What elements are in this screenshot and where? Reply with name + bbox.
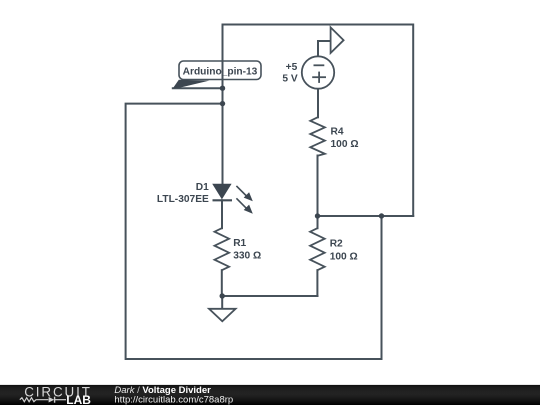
- footer bar: [0, 385, 540, 405]
- junction dot at ground: [220, 293, 225, 298]
- wire LED to R1: [221, 200, 223, 228]
- svg-text:330 Ω: 330 Ω: [233, 250, 261, 261]
- svg-text:Arduino_pin-13: Arduino_pin-13: [183, 67, 258, 78]
- svg-text:D1: D1: [196, 182, 209, 193]
- wire flag lead: [173, 87, 223, 89]
- svg-text:R1: R1: [233, 238, 246, 249]
- logo schematic line: resistor zigzag: [20, 398, 49, 402]
- svg-text:R4: R4: [331, 127, 344, 138]
- wire V1 top lead: [318, 41, 331, 56]
- resistor R4 zigzag: [310, 117, 325, 155]
- wire main vertical from top to LED: [222, 25, 224, 185]
- node flag Arduino_pin-13 box: [179, 61, 261, 80]
- junction dot R2 top: [315, 213, 320, 218]
- diode D1 LED triangle: [213, 184, 231, 198]
- wire horizontal between R4/R2 to right box: [318, 215, 414, 217]
- svg-text:http://circuitlab.com/c78a8rp: http://circuitlab.com/c78a8rp: [114, 395, 233, 405]
- svg-text:+5: +5: [286, 62, 298, 73]
- wire over label box: [222, 60, 224, 81]
- resistor R1 zigzag: [215, 228, 230, 270]
- wire bottom horizontal R1 to R2: [222, 295, 318, 297]
- wire left box: left side, bottom, right riser: [126, 104, 382, 359]
- svg-text:LTL-307EE: LTL-307EE: [157, 194, 209, 205]
- svg-text:5 V: 5 V: [282, 74, 297, 85]
- ground symbol: [209, 309, 236, 322]
- diode D1 cathode bar: [213, 199, 233, 201]
- LED arrow 1: [236, 186, 252, 201]
- logo diode symbol: [49, 397, 55, 403]
- voltage source V1: [302, 56, 334, 88]
- wire V1 bottom lead to R4: [317, 89, 319, 118]
- junction dot at flag: [220, 86, 225, 91]
- junction dot at left box: [220, 101, 225, 106]
- wire R2 bottom lead: [316, 270, 318, 296]
- net flag +5 triangle: [331, 27, 344, 53]
- svg-text:100 Ω: 100 Ω: [330, 251, 358, 262]
- junction dot right riser: [379, 213, 384, 218]
- node flag pennant: [173, 80, 210, 89]
- wire ground stub: [221, 296, 223, 309]
- wire top horizontal and right side of upper box: [223, 25, 414, 217]
- svg-text:R2: R2: [330, 238, 343, 249]
- svg-text:LAB: LAB: [66, 393, 91, 405]
- resistor R2 zigzag: [310, 228, 325, 270]
- wire R4 bottom to R2 top: [317, 156, 319, 229]
- wire R1 bottom lead: [221, 270, 223, 296]
- LED arrow 2: [236, 198, 252, 213]
- svg-text:100 Ω: 100 Ω: [331, 139, 359, 150]
